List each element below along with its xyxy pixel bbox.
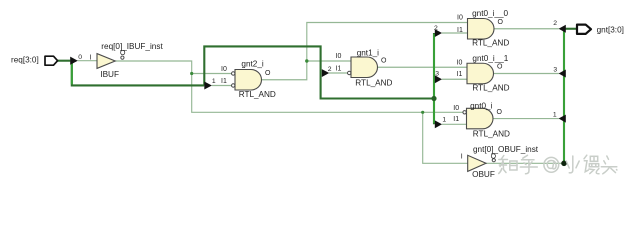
svg-text:1: 1 — [212, 78, 216, 85]
bus merge arrow 3 from gnt0_i__1 — [559, 70, 566, 78]
wire IBUF output net: right, down, branch to gnt2 I0, long run to gnt0_i I0 — [115, 61, 463, 112]
bus req: down from port, right to tap1 — [72, 62, 205, 86]
junction node on gnt2 output net — [305, 59, 308, 62]
svg-text:IBUF: IBUF — [100, 70, 119, 79]
svg-text:0: 0 — [78, 54, 82, 61]
svg-text:O: O — [491, 153, 497, 160]
svg-text:gnt0_i: gnt0_i — [470, 101, 492, 110]
port gnt[3:0] — [577, 25, 624, 35]
junction node OBUF output into gnt bus — [561, 161, 567, 167]
svg-text:I0: I0 — [457, 15, 463, 22]
bus tap arrow 2 to gnt1_i I1 — [322, 69, 329, 77]
svg-text:I0: I0 — [221, 66, 227, 73]
svg-text:2: 2 — [553, 20, 557, 27]
wire gnt2_i output: right, up, to gnt0_i__0 I0 — [262, 23, 468, 80]
bus tap arrow 0 (req port) — [70, 57, 78, 65]
at-sign — [544, 157, 559, 172]
zhi glyph — [499, 156, 517, 174]
wire OBUF output to gnt bus dot — [486, 162, 562, 164]
wire gnt0_i__1 output to gnt bus — [494, 73, 559, 75]
bus gnt vertical at right — [563, 29, 565, 164]
wire tap2 to gnt0_i__0 I1 — [442, 32, 468, 34]
svg-text:gnt[3:0]: gnt[3:0] — [597, 25, 624, 34]
bus tap arrow 3 to gnt0_i__1 I1 — [435, 75, 442, 83]
junction node bus at tap column — [431, 96, 436, 101]
hu glyph — [520, 155, 537, 174]
svg-text:O: O — [497, 64, 503, 71]
bus stub req port — [58, 60, 71, 62]
bright bus verticals overdraw — [72, 30, 564, 162]
bus tap column vertical — [433, 34, 435, 123]
wire branch to gnt1_i I0 — [307, 60, 351, 62]
wire tap2 to gnt1_i I1 — [329, 72, 347, 74]
wire tap1 to gnt0_i I1 — [442, 123, 467, 125]
bus branch vertical with bit taps — [433, 33, 435, 124]
bus gnt vertical — [563, 30, 565, 162]
wire gnt1_i output to gnt0_i__1 I0 — [378, 66, 468, 68]
svg-text:O: O — [498, 19, 504, 26]
svg-text:I1: I1 — [336, 65, 342, 72]
bus tap arrow 1 to gnt2_i I1 — [204, 82, 212, 90]
svg-text:2: 2 — [328, 66, 332, 73]
tou glyph — [601, 156, 617, 174]
svg-text:OBUF: OBUF — [472, 170, 495, 179]
svg-text:3: 3 — [553, 67, 557, 74]
and-gate U gnt1_i RTL_AND — [336, 48, 393, 87]
svg-text:RTL_AND: RTL_AND — [472, 39, 509, 48]
svg-text:I1: I1 — [221, 78, 227, 85]
svg-text:I0: I0 — [453, 105, 459, 112]
bus stub to gnt port — [564, 28, 577, 30]
bus merge arrow 2 from gnt0_i__0 — [559, 25, 566, 33]
svg-text:O: O — [265, 70, 271, 77]
bus merge arrow 1 from gnt0_i — [559, 115, 566, 123]
and-gate U gnt2_i RTL_AND — [221, 60, 276, 99]
bus tap arrow 2 to gnt0_i__0 I1 — [435, 29, 442, 37]
bus req vertical from port — [71, 62, 73, 84]
and-gate U gnt0_i RTL_AND — [453, 101, 510, 138]
svg-text:O: O — [381, 58, 387, 65]
svg-text:O: O — [120, 50, 126, 57]
svg-text:gnt1_i: gnt1_i — [357, 48, 379, 57]
svg-text:gnt0_i__1: gnt0_i__1 — [472, 54, 508, 63]
svg-text:I0: I0 — [336, 53, 342, 60]
svg-text:RTL_AND: RTL_AND — [473, 130, 510, 139]
svg-text:2: 2 — [434, 25, 438, 32]
port req[3:0] — [11, 56, 58, 66]
svg-text:I: I — [90, 54, 92, 61]
svg-text:RTL_AND: RTL_AND — [472, 84, 509, 93]
watermark 知乎 @小馒头 — [499, 155, 617, 174]
and-gate U gnt0_i__1 RTL_AND — [457, 54, 510, 93]
buffer IBUF req[0]_IBUF_inst — [90, 42, 164, 79]
bit index labels — [78, 20, 557, 123]
svg-text:I1: I1 — [457, 27, 463, 34]
bus req: up, right along top, down, right to junction — [204, 46, 434, 98]
wire branch to gnt2_i I0 — [192, 73, 232, 75]
man glyph — [584, 155, 599, 174]
svg-text:gnt0_i__0: gnt0_i__0 — [472, 9, 508, 18]
buffer OBUF gnt[0]_OBUF_inst — [461, 145, 539, 179]
svg-text:3: 3 — [435, 70, 439, 77]
svg-text:I: I — [461, 153, 463, 160]
svg-text:O: O — [497, 109, 503, 116]
svg-text:I1: I1 — [457, 71, 463, 78]
wire port tap0 to IBUF input — [78, 60, 98, 62]
wire tap3 to gnt0_i__1 I1 — [442, 78, 467, 80]
thin nets — [78, 23, 563, 164]
svg-text:1: 1 — [553, 112, 557, 119]
svg-text:I0: I0 — [457, 59, 463, 66]
junction node on IBUF net at gnt2 branch — [190, 72, 193, 75]
wire gnt0_i__0 output to gnt bus — [494, 28, 559, 30]
bus tap arrow 1 to gnt0_i I1 — [435, 120, 442, 128]
svg-text:I1: I1 — [453, 116, 459, 123]
xiao glyph — [566, 156, 579, 173]
and-gate U gnt0_i__0 RTL_AND — [457, 9, 509, 48]
wire tap1 to gnt2_i I1 — [212, 85, 232, 87]
svg-text:req[3:0]: req[3:0] — [11, 56, 39, 65]
bus req horizontal segments (dark green) — [58, 29, 577, 164]
wire gnt0_i output to gnt bus — [493, 118, 559, 120]
svg-text:RTL_AND: RTL_AND — [239, 90, 276, 99]
junction node on IBUF net at OBUF branch — [421, 111, 424, 114]
wire branch down to OBUF input — [423, 112, 468, 163]
svg-text:1: 1 — [442, 116, 446, 123]
svg-text:gnt[0]_OBUF_inst: gnt[0]_OBUF_inst — [473, 145, 539, 154]
svg-text:RTL_AND: RTL_AND — [355, 79, 392, 88]
svg-text:gnt2_i: gnt2_i — [241, 60, 263, 69]
svg-text:req[0]_IBUF_inst: req[0]_IBUF_inst — [101, 42, 163, 51]
